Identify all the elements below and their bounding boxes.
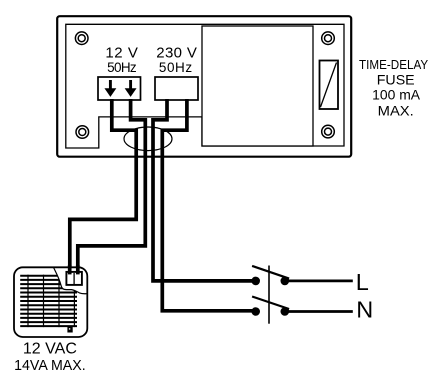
svg-text:N: N bbox=[356, 297, 373, 323]
svg-text:MAX.: MAX. bbox=[378, 102, 414, 118]
svg-text:FUSE: FUSE bbox=[377, 71, 415, 87]
svg-text:50Hz: 50Hz bbox=[159, 60, 193, 75]
svg-text:TIME-DELAY: TIME-DELAY bbox=[359, 57, 428, 72]
svg-text:12 VAC: 12 VAC bbox=[23, 340, 77, 357]
svg-text:50Hz: 50Hz bbox=[107, 60, 137, 75]
svg-text:14VA MAX.: 14VA MAX. bbox=[14, 358, 86, 374]
svg-text:100 mA: 100 mA bbox=[372, 87, 421, 103]
svg-text:L: L bbox=[356, 269, 369, 295]
